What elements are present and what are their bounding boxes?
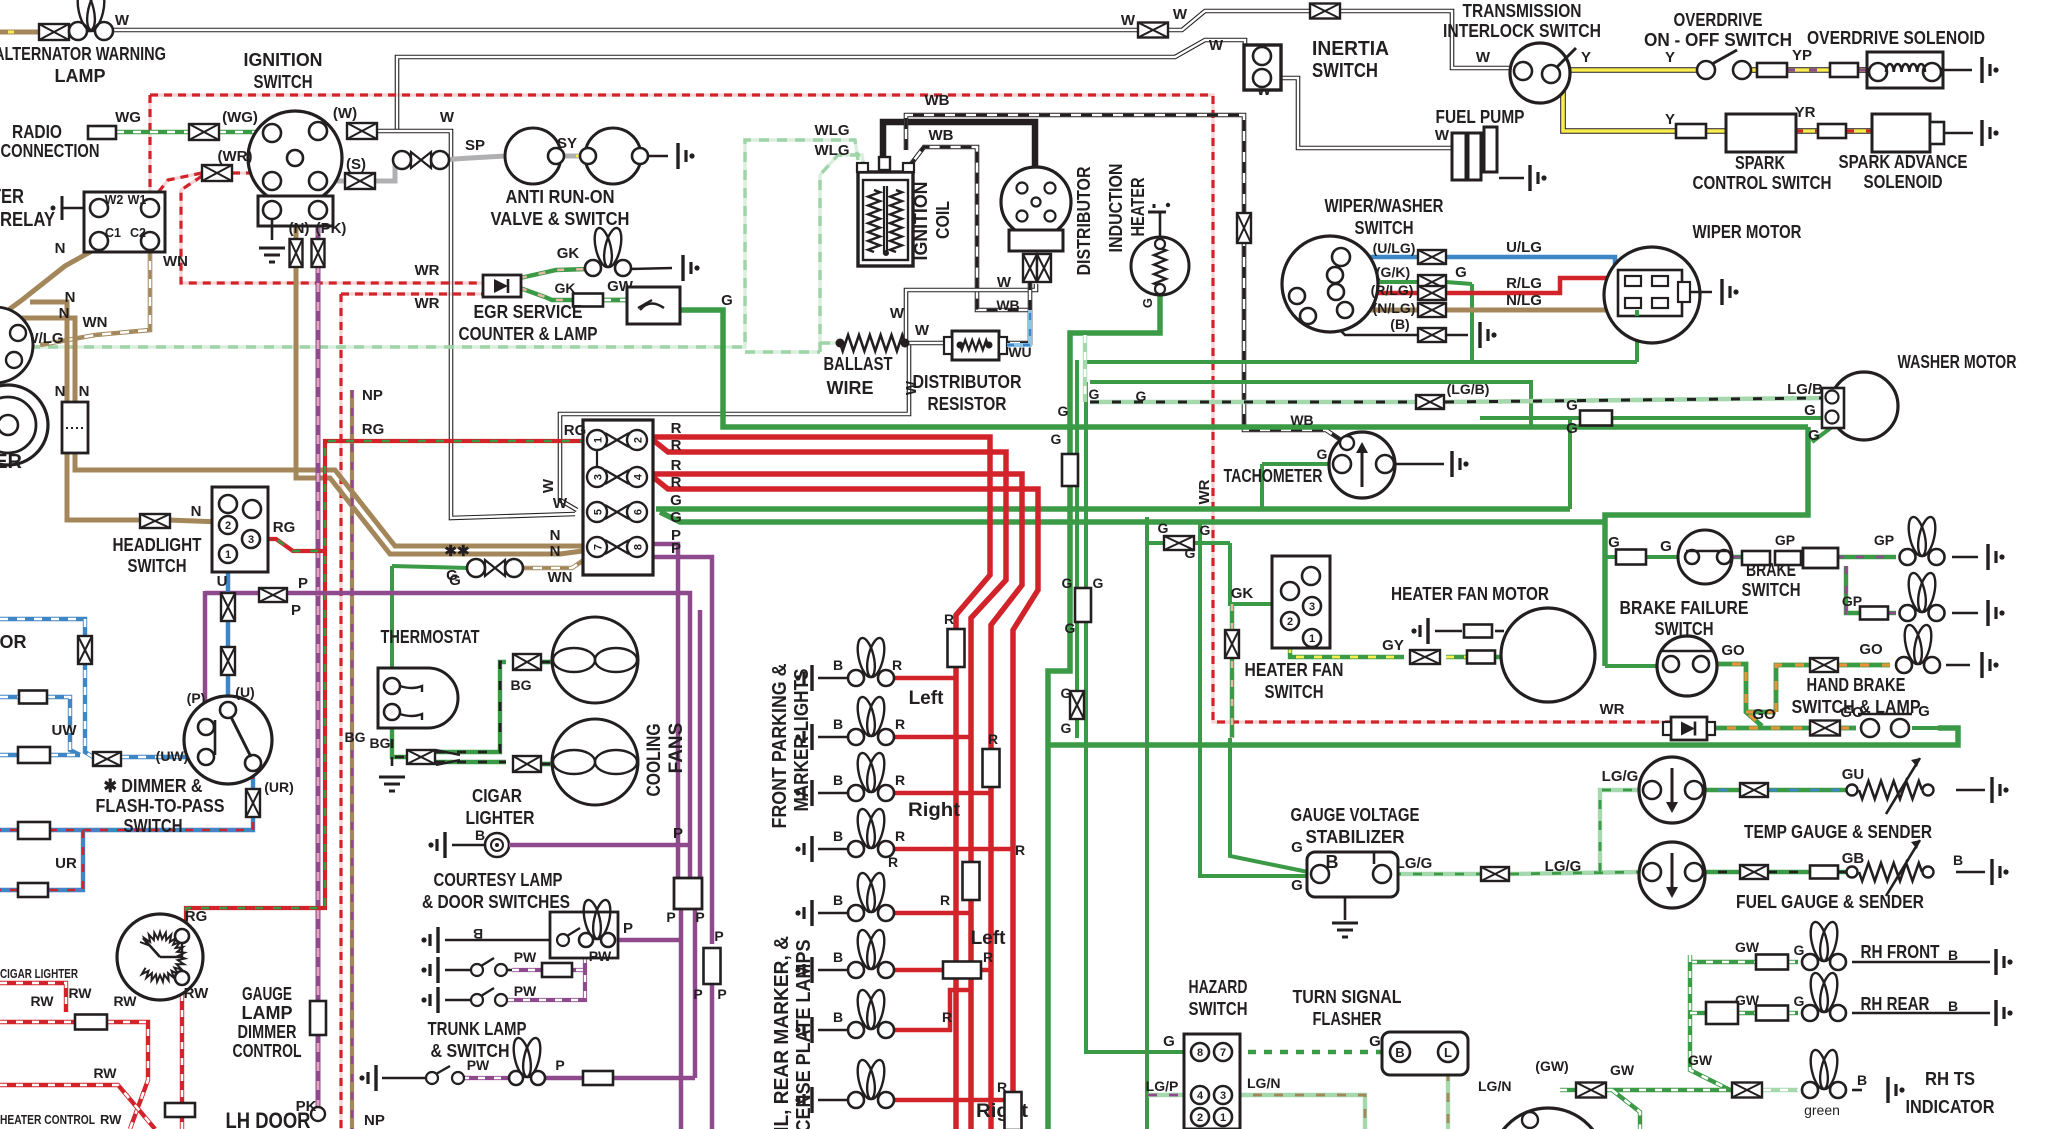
svg-text:FUEL PUMP: FUEL PUMP xyxy=(1436,107,1525,127)
svg-text:GO: GO xyxy=(1721,642,1745,659)
svg-text:WR: WR xyxy=(415,262,440,279)
svg-text:YR: YR xyxy=(1795,104,1816,121)
svg-text:(N): (N) xyxy=(289,220,310,237)
svg-text:WN: WN xyxy=(548,569,573,586)
svg-text:PW: PW xyxy=(514,983,537,999)
svg-text:G: G xyxy=(1369,1033,1381,1050)
svg-text:5: 5 xyxy=(593,509,605,515)
svg-text:CONTROL SWITCH: CONTROL SWITCH xyxy=(1693,173,1832,193)
svg-text:green: green xyxy=(1804,1102,1840,1118)
svg-text:(UW): (UW) xyxy=(156,748,189,764)
svg-text:LIGHTER: LIGHTER xyxy=(466,808,535,828)
svg-text:1: 1 xyxy=(1220,1112,1226,1124)
svg-text:W: W xyxy=(553,495,568,512)
svg-text:B: B xyxy=(833,892,843,908)
svg-text:R: R xyxy=(671,457,682,474)
svg-text:LAMP: LAMP xyxy=(55,66,106,86)
svg-text:R: R xyxy=(671,474,682,491)
svg-text:R: R xyxy=(895,772,905,788)
svg-text:(U): (U) xyxy=(235,684,254,700)
svg-text:G: G xyxy=(1455,264,1467,281)
svg-text:WB: WB xyxy=(996,297,1019,313)
svg-text:BG: BG xyxy=(511,677,532,693)
svg-text:WN: WN xyxy=(83,314,108,331)
svg-text:R: R xyxy=(895,716,905,732)
svg-text:2: 2 xyxy=(225,520,231,532)
svg-text:L: L xyxy=(1444,1045,1452,1060)
svg-text:UR: UR xyxy=(55,855,77,872)
svg-text:B: B xyxy=(833,657,843,673)
svg-text:N: N xyxy=(65,289,76,306)
svg-text:SY: SY xyxy=(557,135,577,152)
svg-text:SWITCH & LAMP: SWITCH & LAMP xyxy=(1792,697,1921,717)
svg-text:P: P xyxy=(623,920,633,937)
svg-text:B: B xyxy=(473,926,483,942)
svg-text:EGR SERVICE: EGR SERVICE xyxy=(474,302,583,322)
svg-text:SWITCH: SWITCH xyxy=(254,72,313,92)
svg-text:LG/G: LG/G xyxy=(1545,858,1582,875)
svg-text:1: 1 xyxy=(1309,633,1315,645)
svg-text:INDICATOR: INDICATOR xyxy=(1906,1097,1995,1117)
svg-text:G: G xyxy=(1660,538,1672,555)
svg-text:COIL: COIL xyxy=(933,201,953,239)
svg-text:RW: RW xyxy=(100,1112,122,1127)
svg-text:G: G xyxy=(1566,420,1578,437)
svg-text:GU: GU xyxy=(1842,766,1865,783)
svg-text:P: P xyxy=(717,986,726,1002)
svg-text:G: G xyxy=(449,572,461,589)
svg-text:G: G xyxy=(1794,993,1805,1009)
svg-text:W: W xyxy=(1121,12,1136,29)
svg-text:LG/P: LG/P xyxy=(1146,1078,1179,1094)
svg-text:G: G xyxy=(670,509,682,526)
svg-text:TAIL, REAR MARKER, &: TAIL, REAR MARKER, & xyxy=(771,936,793,1129)
svg-text:DISTRIBUTOR: DISTRIBUTOR xyxy=(913,372,1022,392)
svg-text:N: N xyxy=(59,305,70,322)
svg-text:R: R xyxy=(940,892,950,908)
svg-text:R: R xyxy=(942,1009,952,1025)
svg-text:(W): (W) xyxy=(333,105,357,122)
svg-text:G: G xyxy=(721,292,733,309)
svg-text:SWITCH: SWITCH xyxy=(1742,580,1801,600)
svg-text:STABILIZER: STABILIZER xyxy=(1306,827,1405,847)
svg-text:WIRE: WIRE xyxy=(827,378,874,398)
svg-text:3: 3 xyxy=(248,534,254,546)
svg-text:SWITCH: SWITCH xyxy=(1312,60,1378,82)
svg-text:(LG/B): (LG/B) xyxy=(1447,381,1490,397)
svg-text:G: G xyxy=(1051,431,1062,447)
svg-text:COUNTER & LAMP: COUNTER & LAMP xyxy=(459,324,598,344)
svg-text:P: P xyxy=(298,575,308,592)
svg-text:GK: GK xyxy=(1231,585,1254,602)
svg-text:GW: GW xyxy=(1610,1062,1635,1078)
svg-text:G: G xyxy=(1158,520,1169,536)
svg-text:W: W xyxy=(997,274,1012,291)
svg-text:N: N xyxy=(55,383,66,400)
svg-text:8: 8 xyxy=(1197,1047,1203,1059)
svg-text:N: N xyxy=(55,240,66,257)
svg-text:RH FRONT: RH FRONT xyxy=(1861,942,1940,962)
svg-text:P: P xyxy=(671,540,681,557)
svg-text:WR: WR xyxy=(1196,479,1213,504)
svg-text:RESISTOR: RESISTOR xyxy=(928,394,1007,414)
svg-text:SPARK ADVANCE: SPARK ADVANCE xyxy=(1839,152,1968,172)
svg-text:HAND BRAKE: HAND BRAKE xyxy=(1807,675,1906,695)
svg-text:P: P xyxy=(666,909,675,925)
svg-text:3: 3 xyxy=(1220,1090,1226,1102)
svg-text:(G/K): (G/K) xyxy=(1376,264,1410,280)
svg-text:TEMP GAUGE & SENDER: TEMP GAUGE & SENDER xyxy=(1744,822,1932,842)
svg-text:W: W xyxy=(440,109,455,126)
svg-text:G: G xyxy=(1163,1033,1175,1050)
svg-text:R: R xyxy=(671,420,682,437)
svg-text:W1: W1 xyxy=(128,193,147,207)
svg-text:Y: Y xyxy=(1665,111,1675,128)
svg-text:COOLING: COOLING xyxy=(644,724,665,797)
svg-text:INERTIA: INERTIA xyxy=(1312,38,1389,60)
svg-text:R/LG: R/LG xyxy=(1506,275,1542,292)
svg-text:7: 7 xyxy=(1220,1047,1226,1059)
svg-text:HEADLIGHT: HEADLIGHT xyxy=(113,535,202,555)
svg-text:THERMOSTAT: THERMOSTAT xyxy=(381,627,480,647)
svg-text:B: B xyxy=(833,716,843,732)
svg-text:P: P xyxy=(555,1057,564,1073)
svg-text:Y: Y xyxy=(1665,49,1675,66)
svg-text:VALVE & SWITCH: VALVE & SWITCH xyxy=(491,209,630,229)
svg-text:LG/B: LG/B xyxy=(1787,381,1823,398)
svg-text:R: R xyxy=(988,731,998,747)
svg-text:(UR): (UR) xyxy=(264,779,294,795)
svg-text:B: B xyxy=(833,772,843,788)
svg-text:CONNECTION: CONNECTION xyxy=(1,141,100,161)
svg-text:Right: Right xyxy=(908,800,961,821)
svg-text:1: 1 xyxy=(225,549,231,561)
svg-text:WB: WB xyxy=(1290,412,1313,428)
svg-text:G: G xyxy=(670,492,682,509)
svg-text:G: G xyxy=(1065,620,1076,636)
svg-text:OVERDRIVE: OVERDRIVE xyxy=(1674,10,1763,30)
svg-text:G: G xyxy=(1566,397,1578,414)
svg-text:G: G xyxy=(1185,545,1196,561)
svg-text:G: G xyxy=(1140,298,1155,308)
svg-text:BRAKE FAILURE: BRAKE FAILURE xyxy=(1620,598,1749,618)
svg-text:P: P xyxy=(291,602,301,619)
svg-text:Left: Left xyxy=(909,688,945,709)
svg-text:GAUGE VOLTAGE: GAUGE VOLTAGE xyxy=(1291,805,1420,825)
svg-text:CIGAR: CIGAR xyxy=(472,786,522,806)
svg-text:WLG: WLG xyxy=(815,142,850,159)
svg-text:(P): (P) xyxy=(187,690,206,706)
svg-text:SWITCH: SWITCH xyxy=(1355,218,1414,238)
svg-text:B: B xyxy=(475,827,485,843)
svg-text:PW: PW xyxy=(589,948,612,964)
svg-text:ANTI RUN-ON: ANTI RUN-ON xyxy=(506,187,615,207)
svg-text:2: 2 xyxy=(1287,616,1293,628)
svg-text:WR: WR xyxy=(415,295,440,312)
svg-text:B: B xyxy=(1948,998,1958,1014)
svg-text:G: G xyxy=(1058,403,1069,419)
svg-text:P: P xyxy=(673,825,683,842)
svg-text:B: B xyxy=(1948,947,1958,963)
svg-text:B: B xyxy=(1857,1072,1867,1088)
svg-text:INTERLOCK SWITCH: INTERLOCK SWITCH xyxy=(1443,21,1601,41)
svg-text:G: G xyxy=(1804,402,1816,419)
svg-text:RW: RW xyxy=(68,985,92,1001)
svg-text:RH TS: RH TS xyxy=(1925,1069,1975,1089)
svg-text:LG/N: LG/N xyxy=(1247,1075,1280,1091)
svg-text:G: G xyxy=(1061,720,1072,736)
svg-text:✱✱: ✱✱ xyxy=(444,543,470,560)
svg-text:(B): (B) xyxy=(1390,316,1409,332)
svg-text:IGNITION: IGNITION xyxy=(911,182,931,261)
svg-text:UW: UW xyxy=(52,722,78,739)
svg-text:LG/G: LG/G xyxy=(1396,855,1433,872)
svg-text:4: 4 xyxy=(633,473,645,480)
svg-text:2: 2 xyxy=(633,437,645,443)
svg-text:PK: PK xyxy=(296,1098,317,1115)
svg-text:R: R xyxy=(944,611,954,627)
svg-text:FANS: FANS xyxy=(666,723,687,774)
svg-text:C1: C1 xyxy=(105,226,121,240)
svg-text:P: P xyxy=(714,928,723,944)
svg-text:LAMP: LAMP xyxy=(242,1003,293,1023)
svg-text:MARKER LIGHTS: MARKER LIGHTS xyxy=(791,669,813,812)
svg-text:7: 7 xyxy=(593,544,605,550)
svg-text:RG: RG xyxy=(185,908,208,925)
svg-text:FLASHER: FLASHER xyxy=(1313,1009,1382,1029)
svg-text:W: W xyxy=(915,322,930,339)
svg-text:COURTESY LAMP: COURTESY LAMP xyxy=(434,870,563,890)
svg-text:R: R xyxy=(895,828,905,844)
svg-text:TARTER: TARTER xyxy=(0,186,24,208)
svg-text:R: R xyxy=(1015,842,1025,858)
svg-text:WN: WN xyxy=(163,253,188,270)
svg-text:GK: GK xyxy=(555,280,576,296)
svg-text:FRONT PARKING &: FRONT PARKING & xyxy=(769,664,791,829)
svg-text:OR: OR xyxy=(0,632,27,652)
svg-text:RADIO: RADIO xyxy=(12,122,62,142)
svg-text:DIMMER: DIMMER xyxy=(238,1022,297,1042)
svg-text:N: N xyxy=(550,527,561,544)
svg-text:WIPER MOTOR: WIPER MOTOR xyxy=(1693,222,1802,242)
svg-text:DISTRIBUTOR: DISTRIBUTOR xyxy=(1074,167,1094,276)
svg-text:C2: C2 xyxy=(130,226,146,240)
svg-text:G: G xyxy=(1291,877,1303,894)
svg-text:PW: PW xyxy=(514,949,537,965)
svg-text:R: R xyxy=(892,657,902,673)
svg-text:RW: RW xyxy=(30,993,54,1009)
svg-text:R: R xyxy=(888,854,898,870)
svg-text:6: 6 xyxy=(633,509,645,515)
svg-text:G: G xyxy=(1317,446,1328,462)
svg-text:BG: BG xyxy=(370,735,391,751)
svg-text:HEATER CONTROL: HEATER CONTROL xyxy=(0,1112,95,1127)
svg-text:(S): (S) xyxy=(346,156,366,173)
svg-text:G: G xyxy=(1794,942,1805,958)
svg-text:WB: WB xyxy=(929,127,954,144)
svg-text:B: B xyxy=(833,949,843,965)
svg-text:U/LG: U/LG xyxy=(1506,239,1542,256)
svg-text:(WR): (WR) xyxy=(218,148,253,165)
svg-text:W: W xyxy=(1476,49,1491,66)
svg-text:WG: WG xyxy=(115,109,141,126)
svg-text:SPARK: SPARK xyxy=(1735,153,1785,173)
svg-text:G: G xyxy=(1200,522,1211,538)
svg-text:NP: NP xyxy=(364,1112,385,1129)
svg-text:RH REAR: RH REAR xyxy=(1861,994,1930,1014)
svg-text:B: B xyxy=(833,1009,843,1025)
svg-text:4: 4 xyxy=(1197,1090,1204,1102)
svg-text:WIPER/WASHER: WIPER/WASHER xyxy=(1325,196,1444,216)
svg-text:(GW): (GW) xyxy=(1535,1058,1568,1074)
svg-text:N/LG: N/LG xyxy=(1506,292,1542,309)
svg-text:W: W xyxy=(1209,37,1224,54)
svg-text:W: W xyxy=(115,12,130,29)
svg-text:W: W xyxy=(1435,127,1450,144)
svg-text:✱ DIMMER &: ✱ DIMMER & xyxy=(104,776,203,796)
svg-text:GY: GY xyxy=(1382,637,1404,654)
svg-text:R: R xyxy=(983,949,993,965)
svg-text:RELAY: RELAY xyxy=(0,209,56,231)
svg-text:I: I xyxy=(1371,848,1376,868)
svg-text:IGNITION: IGNITION xyxy=(244,50,323,70)
svg-text:W: W xyxy=(1173,6,1188,23)
svg-text:BG: BG xyxy=(345,729,366,745)
svg-text:TRUNK LAMP: TRUNK LAMP xyxy=(428,1019,527,1039)
svg-text:GO: GO xyxy=(1859,641,1883,658)
svg-text:G: G xyxy=(1808,427,1820,444)
svg-text:WASHER MOTOR: WASHER MOTOR xyxy=(1898,352,2017,372)
svg-text:& DOOR SWITCHES: & DOOR SWITCHES xyxy=(422,892,570,912)
svg-text:P: P xyxy=(695,909,704,925)
svg-text:PW: PW xyxy=(467,1057,490,1073)
svg-text:B: B xyxy=(833,828,843,844)
svg-text:(U/LG): (U/LG) xyxy=(1373,240,1416,256)
svg-text:RW: RW xyxy=(93,1065,117,1081)
svg-text:G: G xyxy=(1093,575,1104,591)
svg-text:CIGAR LIGHTER: CIGAR LIGHTER xyxy=(0,966,78,981)
svg-text:3: 3 xyxy=(1309,601,1315,613)
svg-text:G: G xyxy=(1062,575,1073,591)
svg-text:ON - OFF SWITCH: ON - OFF SWITCH xyxy=(1644,30,1792,50)
svg-text:G: G xyxy=(1089,386,1100,402)
svg-text:HAZARD: HAZARD xyxy=(1189,977,1248,997)
svg-text:HEATER FAN: HEATER FAN xyxy=(1245,660,1344,680)
svg-text:(WG): (WG) xyxy=(222,109,258,126)
svg-text:LG/N: LG/N xyxy=(1478,1078,1511,1094)
svg-text:SWITCH: SWITCH xyxy=(124,816,183,836)
svg-text:RG: RG xyxy=(362,421,385,438)
svg-text:WLG: WLG xyxy=(815,122,850,139)
svg-text:HEATER FAN MOTOR: HEATER FAN MOTOR xyxy=(1391,584,1549,604)
svg-text:B: B xyxy=(1953,852,1963,868)
svg-text:N: N xyxy=(79,383,90,400)
svg-text:SOLENOID: SOLENOID xyxy=(1864,172,1943,192)
svg-text:B: B xyxy=(1326,852,1339,872)
svg-text:GW: GW xyxy=(1735,939,1760,955)
svg-text:TRANSMISSION: TRANSMISSION xyxy=(1463,1,1582,21)
svg-text:G: G xyxy=(1061,685,1072,701)
svg-text:SWITCH: SWITCH xyxy=(1655,619,1714,639)
svg-text:SWITCH: SWITCH xyxy=(1189,999,1248,1019)
svg-text:W2: W2 xyxy=(105,193,124,207)
svg-text:OVERDRIVE SOLENOID: OVERDRIVE SOLENOID xyxy=(1807,28,1985,48)
svg-text:TACHOMETER: TACHOMETER xyxy=(1224,466,1323,486)
svg-text:ALTERNATOR WARNING: ALTERNATOR WARNING xyxy=(0,44,166,64)
svg-text:2: 2 xyxy=(1197,1112,1203,1124)
svg-text:CONTROL: CONTROL xyxy=(233,1041,302,1061)
svg-text:YP: YP xyxy=(1792,47,1812,64)
svg-text:BALLAST: BALLAST xyxy=(824,354,893,374)
svg-text:GO: GO xyxy=(1752,706,1776,723)
svg-text:RW: RW xyxy=(113,993,137,1009)
svg-text:INDUCTION: INDUCTION xyxy=(1106,164,1126,253)
svg-text:N: N xyxy=(550,543,561,560)
svg-text:WB: WB xyxy=(925,92,950,109)
svg-text:Y: Y xyxy=(1581,49,1591,66)
svg-text:LG/G: LG/G xyxy=(1602,768,1639,785)
svg-text:3: 3 xyxy=(593,474,605,480)
svg-text:(N/LG): (N/LG) xyxy=(1373,300,1416,316)
svg-text:SWITCH: SWITCH xyxy=(1265,682,1324,702)
svg-text:FLASH-TO-PASS: FLASH-TO-PASS xyxy=(96,796,225,816)
svg-text:(R/LG): (R/LG) xyxy=(1371,282,1414,298)
svg-text:GP: GP xyxy=(1775,532,1795,548)
svg-text:GK: GK xyxy=(557,245,580,262)
svg-text:SP: SP xyxy=(465,137,485,154)
svg-text:RG: RG xyxy=(564,422,587,439)
svg-text:SWITCH: SWITCH xyxy=(128,556,187,576)
svg-text:8: 8 xyxy=(633,544,645,550)
svg-text:WR: WR xyxy=(1600,701,1625,718)
svg-text:GW: GW xyxy=(1688,1052,1713,1068)
svg-text:(PK): (PK) xyxy=(316,220,347,237)
svg-text:RG: RG xyxy=(273,519,296,536)
svg-text:R: R xyxy=(671,437,682,454)
svg-text:B: B xyxy=(1395,1045,1404,1060)
svg-text:NP: NP xyxy=(362,387,383,404)
svg-text:N: N xyxy=(191,503,202,520)
svg-text:1: 1 xyxy=(593,437,605,443)
svg-text:FUEL GAUGE & SENDER: FUEL GAUGE & SENDER xyxy=(1736,892,1924,912)
svg-text:HEATER: HEATER xyxy=(1128,178,1148,237)
svg-text:G: G xyxy=(1291,839,1303,856)
svg-text:GAUGE: GAUGE xyxy=(242,984,292,1004)
svg-text:RW: RW xyxy=(184,985,210,1002)
svg-text:GP: GP xyxy=(1874,532,1894,548)
svg-text:TURN SIGNAL: TURN SIGNAL xyxy=(1293,987,1402,1007)
svg-text:RTER: RTER xyxy=(0,451,23,473)
svg-text:GB: GB xyxy=(1842,850,1865,867)
svg-text:G: G xyxy=(1136,388,1147,404)
svg-text:U: U xyxy=(217,573,228,590)
svg-text:W: W xyxy=(890,305,905,322)
svg-text:Left: Left xyxy=(971,928,1007,949)
svg-text:W: W xyxy=(540,478,557,493)
svg-text:P: P xyxy=(693,986,702,1002)
